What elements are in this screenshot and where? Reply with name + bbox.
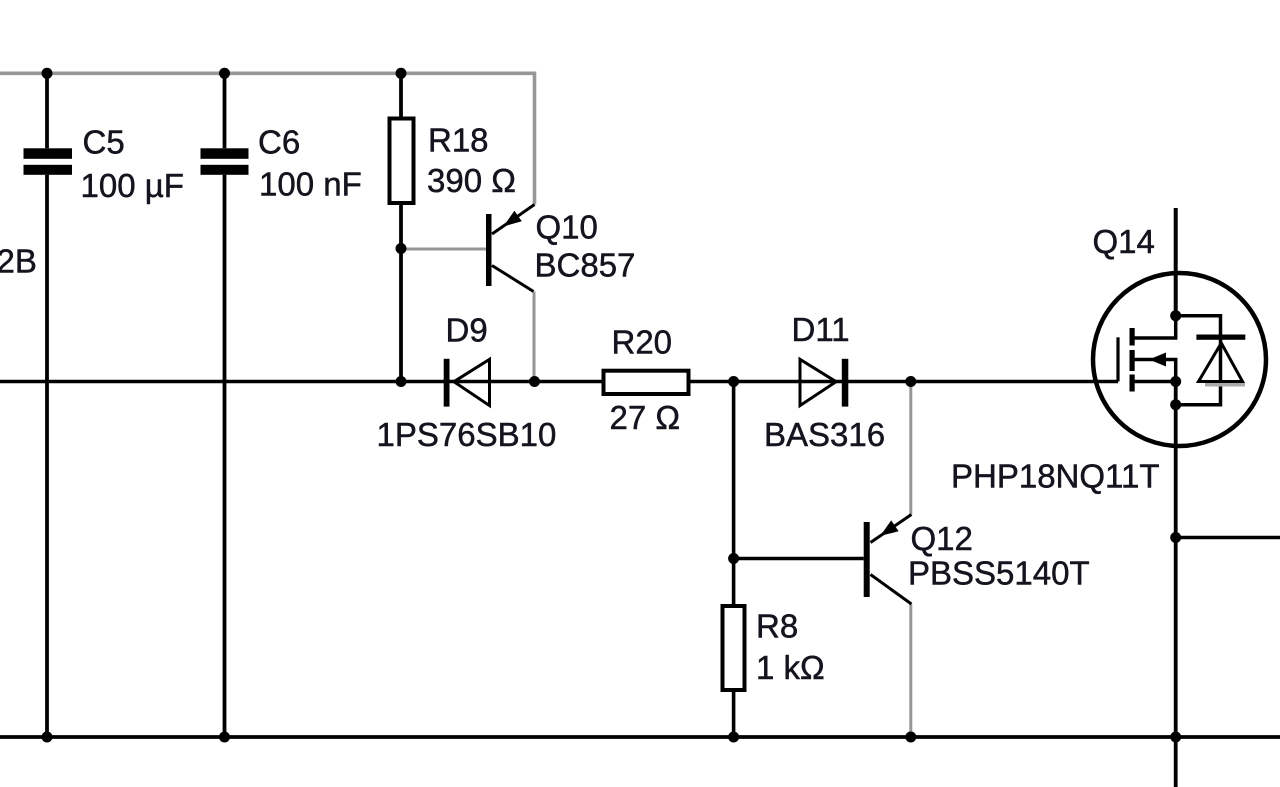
body diode triangle — [1199, 343, 1243, 382]
transistor Q14 PHP18NQ11T (MOSFET) — [951, 208, 1266, 787]
svg-text:BC857: BC857 — [535, 247, 636, 284]
wire Q12 collector drop (gray) — [909, 604, 912, 737]
diode D9 1PS76SB10 — [377, 312, 557, 454]
svg-text:D11: D11 — [792, 311, 850, 348]
channel segment bottom — [1130, 375, 1135, 392]
diode D11 BAS316 — [764, 311, 885, 453]
drain stub — [1174, 208, 1178, 316]
svg-text:Q10: Q10 — [536, 209, 598, 246]
gate bar — [1116, 337, 1119, 381]
source internal line — [1132, 380, 1176, 384]
resistor R18 — [390, 73, 516, 381]
svg-text:PBSS5140T: PBSS5140T — [908, 555, 1090, 592]
source vertical down — [1174, 382, 1178, 787]
transistor Q10 BC857 — [486, 205, 635, 292]
wire Q12 base feed — [734, 382, 864, 559]
mosfet body circle — [1093, 273, 1266, 446]
svg-text:100 µF: 100 µF — [81, 167, 184, 204]
node dot Q12 base — [728, 553, 739, 564]
svg-text:R20: R20 — [612, 324, 673, 361]
source arrow line — [1132, 360, 1176, 382]
svg-text:C6: C6 — [258, 124, 300, 161]
wire top rail (gray) — [0, 73, 535, 204]
body diode cathode bar — [1196, 335, 1245, 340]
svg-text:390 Ω: 390 Ω — [427, 162, 516, 199]
svg-text:R18: R18 — [428, 122, 489, 159]
wire Q12 emitter drop (gray) — [909, 382, 912, 515]
body diode loop — [1176, 316, 1221, 405]
svg-text:D9: D9 — [446, 312, 488, 349]
wire Q10 base lead (gray) — [401, 248, 486, 251]
wire Q10 collector drop (gray) — [533, 292, 536, 383]
svg-text:1 kΩ: 1 kΩ — [756, 649, 825, 686]
wire bottom rail — [0, 735, 1280, 739]
wire mid rail — [0, 380, 1118, 384]
node dots bottom rail — [42, 732, 53, 743]
channel segment middle — [1130, 350, 1135, 371]
resistor R20 — [604, 324, 689, 437]
svg-text:1PS76SB10: 1PS76SB10 — [377, 416, 557, 453]
svg-text:Q12: Q12 — [911, 520, 973, 557]
wire source right stub — [1176, 536, 1280, 540]
node dots mosfet — [1170, 310, 1181, 321]
capacitor C5 — [24, 73, 184, 737]
resistor R8 — [723, 559, 825, 738]
node dots top rail — [42, 68, 53, 79]
svg-text:Q14: Q14 — [1093, 223, 1155, 260]
svg-text:PHP18NQ11T: PHP18NQ11T — [951, 458, 1159, 495]
transistor Q12 PBSS5140T — [864, 515, 1090, 605]
svg-text:R8: R8 — [756, 608, 798, 645]
svg-text:2B: 2B — [0, 243, 37, 280]
node dots mid rail — [396, 243, 407, 254]
svg-text:100 nF: 100 nF — [259, 166, 362, 203]
svg-text:BAS316: BAS316 — [764, 416, 885, 453]
channel segment top — [1130, 328, 1135, 346]
shadow artifact under triangle — [1205, 383, 1245, 387]
capacitor C6 — [201, 73, 362, 737]
svg-text:27 Ω: 27 Ω — [610, 399, 681, 436]
svg-text:C5: C5 — [83, 124, 125, 161]
drain internal L — [1132, 316, 1176, 338]
